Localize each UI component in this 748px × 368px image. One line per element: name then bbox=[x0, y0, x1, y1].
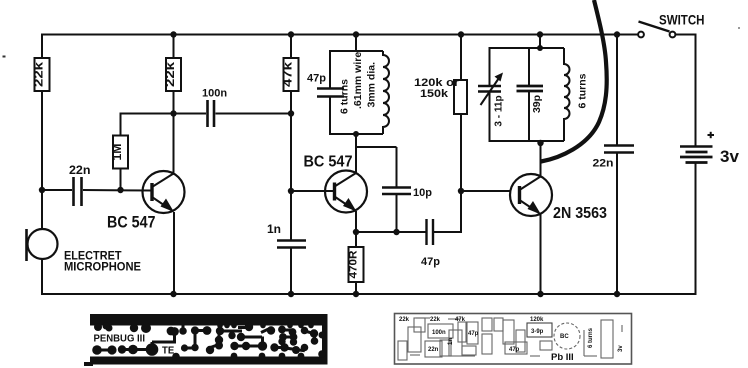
svg-text:22k: 22k bbox=[430, 317, 441, 323]
transistor Q2 BC547: circle bbox=[325, 171, 367, 213]
component layout image (bottom right, faint gray) bbox=[395, 314, 632, 365]
switch contact 2 (open circle) bbox=[670, 32, 676, 38]
wire 1M top to collector node bbox=[120, 113, 174, 115]
svg-text:22k: 22k bbox=[163, 62, 177, 87]
wire left edge: mic node to mic bbox=[41, 190, 43, 230]
svg-text:10p: 10p bbox=[413, 187, 432, 199]
transistor Q1: emitter stroke bbox=[152, 197, 172, 211]
svg-text:47k: 47k bbox=[281, 62, 295, 87]
pcb L-trace near TE bbox=[170, 327, 179, 336]
inductor L2 6 turns (tank2 coil) bbox=[564, 48, 570, 141]
pcb right-of-TE vertical chain bbox=[191, 326, 199, 334]
svg-text:1n: 1n bbox=[448, 338, 454, 345]
wire top rail right segment (switch to corner) bbox=[676, 34, 697, 36]
svg-text:3mm dia.: 3mm dia. bbox=[366, 62, 378, 108]
layout small marks bbox=[416, 317, 430, 319]
transistor Q3: collector stroke bbox=[520, 177, 541, 191]
wire 10p top lead bbox=[396, 147, 398, 187]
resistor 1M leads bbox=[120, 169, 122, 191]
pcb corner speck bbox=[84, 362, 93, 366]
svg-text:120k: 120k bbox=[530, 317, 544, 323]
svg-text:6 turns: 6 turns bbox=[339, 79, 351, 114]
svg-text:.61mm wire: .61mm wire bbox=[352, 52, 364, 109]
svg-text:6 turns: 6 turns bbox=[588, 327, 594, 348]
wire tank1 bottom to Q2 collector bbox=[355, 134, 357, 174]
wire Q1 emitter to bottom rail bbox=[173, 212, 175, 294]
transistor Q1 BC547: circle bbox=[143, 171, 185, 213]
wire 470R to bottom rail bbox=[355, 282, 357, 294]
wire bottom rail bbox=[42, 293, 697, 295]
tank1 box outline (top edge, left edge with gap for 47p, bottom edge) bbox=[330, 51, 383, 88]
layout transistor circle (dashed) bbox=[554, 323, 580, 349]
capacitor 100n: leads bbox=[174, 113, 207, 115]
wire 1n top lead bbox=[290, 191, 292, 240]
transistor Q3: emitter stroke bbox=[520, 200, 540, 213]
svg-text:3v: 3v bbox=[720, 147, 739, 166]
svg-text:47p: 47p bbox=[468, 331, 479, 337]
wire tank2 bottom to Q3 collector bbox=[540, 141, 542, 177]
scan speck top right bbox=[738, 27, 740, 29]
wire Q3 base wire bbox=[461, 190, 511, 192]
layout outer border bbox=[395, 314, 632, 365]
svg-text:Pb III: Pb III bbox=[551, 352, 574, 363]
capacitor 47p tank1: plates bbox=[317, 89, 344, 97]
tank2 box outline bbox=[490, 48, 565, 86]
wire 22n bottom to bottom rail bbox=[616, 153, 618, 295]
capacitor 47p coupling: plates bbox=[427, 219, 434, 245]
battery plus sign bbox=[708, 132, 715, 138]
transistor Q1: base bar bbox=[150, 183, 153, 201]
svg-text:3v: 3v bbox=[618, 345, 624, 352]
transistor Q2: base bar bbox=[333, 183, 336, 201]
svg-text:TE: TE bbox=[162, 345, 174, 357]
svg-text:47p: 47p bbox=[421, 256, 440, 268]
transistor Q3 2N3563: circle bbox=[510, 174, 552, 216]
pcb bottom-mid chain bbox=[206, 346, 214, 354]
pcb mid Y-trace bbox=[237, 333, 245, 341]
wire branch x=540: rail to tank2 top bbox=[539, 35, 541, 49]
wire branch x=356: rail to tank1 top bbox=[355, 35, 357, 52]
wire battery to bottom rail bbox=[695, 163, 697, 296]
pcb pads hanging from top band bbox=[106, 325, 113, 332]
svg-text:22n: 22n bbox=[593, 158, 614, 170]
wire 120k top lead to rail bbox=[460, 35, 462, 81]
pcb bottom-left chains bbox=[92, 345, 102, 355]
pcb white base with black bands bbox=[90, 314, 328, 365]
resistor 22k left: box bbox=[35, 58, 50, 91]
svg-text:47p: 47p bbox=[307, 73, 326, 85]
electret microphone: circle bbox=[28, 229, 58, 259]
transistor Q2: emitter arrowhead bbox=[343, 198, 357, 212]
svg-text:47p: 47p bbox=[509, 347, 520, 353]
wire branch x=291: rail to Q2 base node bbox=[290, 35, 292, 192]
svg-text:ELECTRET: ELECTRET bbox=[64, 251, 122, 263]
wire 1n bottom lead bbox=[290, 248, 292, 294]
battery 3v: plates bbox=[680, 147, 713, 163]
resistor 470R: box bbox=[349, 247, 364, 282]
PCB copper-side image (bottom left) bbox=[84, 314, 328, 366]
wire Q3 emitter to bottom rail bbox=[540, 213, 542, 294]
svg-text:3-9p: 3-9p bbox=[531, 329, 544, 335]
transistor Q1: collector stroke bbox=[152, 174, 174, 188]
svg-text:150k: 150k bbox=[420, 88, 449, 100]
transistor Q1: emitter arrowhead bbox=[161, 199, 175, 213]
svg-text:22k: 22k bbox=[399, 317, 410, 323]
svg-text:100n: 100n bbox=[432, 330, 446, 336]
pcb cluster '3' bbox=[278, 326, 286, 334]
resistor 1M: box bbox=[113, 136, 128, 169]
layout tiny labels bbox=[399, 317, 624, 353]
wire branch x=173.5: rail to Q1 collector bbox=[173, 35, 175, 175]
wire right edge down to battery bbox=[695, 34, 697, 147]
capacitor 10p: plates bbox=[382, 188, 411, 195]
layout component rects bbox=[408, 327, 421, 352]
wire top rail left segment bbox=[42, 34, 638, 36]
svg-text:BC 547: BC 547 bbox=[107, 213, 156, 231]
wire 39p branch top bbox=[528, 48, 530, 86]
wire left edge: rail to mic node bbox=[41, 34, 43, 191]
svg-text:SWITCH: SWITCH bbox=[659, 13, 705, 28]
transistor Q2: emitter stroke bbox=[335, 197, 355, 211]
wire mic bottom to bottom rail bbox=[41, 258, 43, 295]
pcb far-right chain bbox=[301, 327, 309, 335]
svg-text:22n: 22n bbox=[428, 347, 439, 353]
wire 39p branch bottom bbox=[528, 91, 530, 141]
pcb bumps on bottom band bbox=[172, 353, 180, 361]
svg-text:100n: 100n bbox=[202, 87, 227, 99]
pcb bumps under top band bbox=[217, 323, 223, 329]
svg-text:470R: 470R bbox=[348, 250, 360, 278]
resistor 120k/150k: box bbox=[454, 80, 467, 114]
wire 10p bottom lead bbox=[396, 194, 398, 232]
capacitor 39p: plates bbox=[517, 86, 544, 91]
scan speck left margin bbox=[3, 56, 6, 58]
electret microphone: face bar bbox=[25, 229, 28, 261]
svg-text:BC 547: BC 547 bbox=[304, 154, 353, 171]
wire branch x=617: rail to 22n bbox=[616, 35, 618, 146]
capacitor 22n input: plates bbox=[74, 177, 82, 206]
transistor Q3: emitter arrowhead bbox=[528, 201, 542, 215]
transistor Q3: base bar bbox=[518, 186, 521, 204]
svg-text:22n: 22n bbox=[69, 165, 91, 177]
svg-text:47k: 47k bbox=[455, 317, 466, 323]
svg-text:1M: 1M bbox=[110, 143, 124, 160]
wire emitter node to 47p coupling cap bbox=[356, 231, 426, 233]
svg-text:BC: BC bbox=[560, 334, 569, 340]
resistor 47k: box bbox=[284, 58, 299, 91]
wire 47p cap to x=461 riser bbox=[433, 231, 461, 233]
label 6 turns .61mm wire 3mm dia. (rotated) bbox=[339, 52, 378, 114]
wire Q2 base lead bbox=[291, 190, 335, 192]
trimmer arrow bbox=[481, 77, 501, 106]
switch contact 1 (open circle) bbox=[638, 32, 644, 38]
svg-text:MICROPHONE: MICROPHONE bbox=[64, 262, 141, 274]
trimmer capacitor 3-11p: plates bbox=[478, 86, 501, 92]
capacitor 22n input: leads bbox=[42, 189, 72, 191]
capacitor 22n output: plates bbox=[604, 146, 634, 153]
transistor Q2: collector stroke bbox=[335, 173, 357, 187]
svg-text:1n: 1n bbox=[267, 222, 281, 236]
inductor L1 6 turns (tank1 coil) bbox=[383, 51, 389, 134]
pcb right-half upper chain bbox=[216, 327, 224, 335]
svg-text:6 turns: 6 turns bbox=[577, 73, 589, 108]
resistor 22k second: box bbox=[166, 58, 181, 91]
svg-text:2N 3563: 2N 3563 bbox=[553, 205, 607, 222]
wire riser x=461: 120k bottom to 47p node bbox=[460, 114, 462, 233]
wire Q2 emitter down bbox=[355, 211, 357, 247]
svg-text:3 - 11p: 3 - 11p bbox=[494, 95, 505, 126]
svg-text:22k: 22k bbox=[32, 62, 46, 87]
capacitor 1n: plates bbox=[277, 241, 306, 248]
capacitor 100n: plates bbox=[208, 100, 215, 127]
svg-text:39p: 39p bbox=[531, 95, 543, 113]
wire Q2 collector feed horizontal to 10p bbox=[356, 146, 397, 148]
antenna wire (thick curve) bbox=[541, 0, 607, 162]
svg-text:PENBUG III: PENBUG III bbox=[94, 334, 146, 345]
switch lever bbox=[639, 22, 670, 32]
